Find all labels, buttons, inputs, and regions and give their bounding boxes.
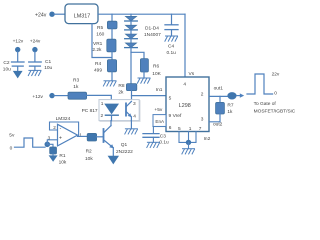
svg-text:R2: R2 (86, 148, 92, 154)
svg-text:1: 1 (101, 101, 104, 107)
svg-text:5v: 5v (9, 133, 15, 139)
svg-text:+24v: +24v (30, 39, 41, 45)
wire node to L298 In1 (132, 95, 167, 97)
capacitor C4 (165, 14, 178, 56)
regulator U2 LM317 (65, 4, 98, 24)
wire node to R1 (47, 144, 53, 147)
svg-text:R1: R1 (59, 153, 65, 159)
svg-text:160: 160 (96, 31, 104, 37)
wire diode string to R6 branch (131, 48, 144, 59)
output terminal oval (227, 92, 236, 99)
svg-text:2: 2 (53, 125, 56, 130)
svg-text:10K: 10K (152, 71, 161, 77)
svg-text:2: 2 (201, 92, 204, 98)
svg-text:To Gate of: To Gate of (254, 101, 277, 107)
svg-text:2N2222: 2N2222 (116, 149, 133, 155)
svg-text:C4: C4 (168, 44, 174, 50)
svg-text:D1-D4: D1-D4 (145, 26, 159, 32)
svg-text:2k: 2k (118, 90, 124, 96)
node dot C1 (32, 47, 37, 52)
node +24v junction dot (49, 12, 54, 17)
wire D3-D4 (130, 39, 132, 43)
svg-text:R7: R7 (227, 103, 233, 109)
svg-text:C3: C3 (160, 133, 166, 139)
resistor R4 (94, 60, 117, 74)
ground below R6 (137, 78, 150, 83)
resistor R6 (140, 59, 161, 78)
node dot C2 (15, 47, 20, 52)
svg-text:+5v: +5v (154, 107, 162, 113)
optocoupler U3 PC817 box (82, 100, 140, 122)
svg-text:9 Vref: 9 Vref (169, 113, 183, 119)
svg-text:4: 4 (183, 82, 186, 88)
arrow ground below R1 (49, 154, 58, 162)
svg-text:R6: R6 (153, 64, 159, 70)
wire +12v to R3 (54, 95, 68, 97)
svg-text:Vs: Vs (189, 71, 195, 77)
node dot ground bus (186, 140, 191, 145)
ground below C1 (28, 70, 41, 75)
ground below C4 (165, 36, 178, 41)
svg-text:In1: In1 (156, 87, 163, 93)
svg-text:+12v: +12v (32, 94, 43, 100)
svg-text:VR1: VR1 (93, 41, 103, 47)
ground below R4 (103, 81, 116, 86)
capacitor C2 (3, 52, 24, 73)
resistor R3 (68, 78, 87, 100)
svg-text:10k: 10k (85, 156, 93, 162)
output arrow (237, 93, 245, 97)
diode D4 (125, 43, 138, 48)
svg-text:499: 499 (94, 67, 102, 73)
ground below C3 (147, 142, 160, 147)
svg-text:10u: 10u (3, 67, 11, 73)
svg-text:5: 5 (169, 96, 172, 102)
wire L298 bottom pins to ground bus (179, 132, 196, 143)
wire node to opamp plus input (47, 140, 57, 145)
svg-text:L298: L298 (179, 103, 191, 109)
ground below L298 (182, 149, 195, 154)
capacitor C1 (29, 52, 53, 72)
svg-text:22v: 22v (272, 72, 280, 78)
svg-text:+12v: +12v (13, 39, 24, 45)
wire rail to R5 (111, 14, 113, 21)
svg-text:MOSFET/IGBT/SiC: MOSFET/IGBT/SiC (254, 108, 296, 114)
transistor Q1 2N2222 (104, 121, 114, 156)
wire R2 to Q1 base (97, 136, 103, 138)
diode D1 1N4007 (125, 16, 138, 21)
EnA callout box (153, 115, 166, 127)
wire R3 to opto LED anode (87, 95, 112, 103)
wire diode node down to R8 (130, 52, 132, 83)
wire R6 to ground (143, 72, 145, 78)
svg-text:3: 3 (133, 101, 136, 107)
svg-text:EnA: EnA (155, 119, 165, 124)
svg-text:out2: out2 (213, 121, 223, 127)
label D1-D4 1N4007 (144, 26, 161, 38)
svg-text:0: 0 (10, 146, 13, 152)
wire R7 to out2 (209, 114, 220, 122)
wire R5 to VR1 (111, 29, 113, 39)
svg-text:1k: 1k (227, 109, 233, 115)
wire out1 to R7 (219, 96, 221, 102)
svg-text:+: + (59, 136, 62, 142)
wire rail to diode string (130, 14, 132, 16)
wire middle stub (188, 132, 190, 143)
wire opamp output to R2 (78, 135, 88, 137)
svg-text:Q1: Q1 (121, 142, 128, 148)
svg-text:10k: 10k (59, 160, 67, 166)
wire R4 to ground (111, 72, 113, 81)
svg-text:10u: 10u (44, 65, 52, 71)
svg-text:2.2k: 2.2k (92, 47, 102, 53)
svg-text:LM317: LM317 (74, 14, 90, 20)
svg-text:R4: R4 (95, 61, 101, 67)
op-amp U1 feedback wire (50, 122, 79, 136)
wire Vs drop (184, 14, 186, 77)
svg-text:6: 6 (169, 125, 172, 131)
output pulse waveform (247, 74, 273, 94)
svg-text:3: 3 (201, 116, 204, 122)
arrow ground below Q1 (108, 156, 119, 165)
wire +24v to LM317 input (54, 13, 65, 15)
svg-text:0: 0 (274, 90, 277, 96)
capacitor C3 (143, 127, 169, 146)
svg-text:+24v: +24v (35, 12, 47, 18)
svg-text:PC 817: PC 817 (82, 108, 98, 114)
opto phototransistor (126, 101, 132, 120)
svg-text:C2: C2 (3, 60, 9, 66)
wire VR1 to R4 junction (111, 52, 113, 60)
svg-text:C1: C1 (45, 59, 51, 65)
wire D1-D2 (130, 21, 132, 25)
resistor R8 (118, 83, 136, 96)
svg-text:1N4007: 1N4007 (144, 32, 161, 38)
svg-text:LM324: LM324 (56, 116, 71, 122)
svg-text:In2: In2 (204, 136, 211, 142)
potentiometer VR1 (92, 39, 116, 53)
ground below opto (125, 129, 138, 134)
svg-text:7: 7 (199, 126, 202, 132)
wire D2-D3 (130, 30, 132, 34)
op-amp U1 triangle (58, 124, 78, 146)
resistor R7 (216, 102, 234, 114)
svg-text:out1: out1 (214, 86, 224, 92)
svg-text:R3: R3 (73, 78, 79, 84)
wire EnA to pin6 (153, 126, 166, 128)
resistor R1 (50, 147, 67, 166)
svg-text:1: 1 (189, 126, 192, 132)
svg-text:1k: 1k (73, 84, 79, 90)
resistor R2 (85, 133, 97, 161)
arrow ground below C2 (13, 71, 23, 79)
opto LED (104, 104, 119, 121)
wire bus to ground (188, 142, 190, 148)
wire LM317 output rail to Vs corner (98, 13, 185, 15)
resistor R5 (96, 21, 117, 37)
diode D3 (125, 34, 138, 39)
wire LM317 adj pin loop (92, 24, 112, 58)
pulse waveform input (15, 138, 46, 147)
svg-text:0.1u: 0.1u (159, 140, 169, 146)
svg-text:R8: R8 (118, 83, 124, 89)
wire R8 to opto collector and In1 node (131, 91, 133, 100)
wire opto emitter to ground (130, 121, 132, 129)
svg-text:R5: R5 (97, 25, 103, 31)
node dot input (45, 142, 51, 148)
wire out1 (209, 95, 228, 97)
svg-text:0.1u: 0.1u (167, 50, 177, 56)
node dot +12v (49, 93, 54, 98)
driver U4 L298 box (166, 77, 209, 132)
svg-text:4: 4 (133, 114, 136, 120)
diode D2 (125, 25, 138, 30)
svg-text:2: 2 (101, 113, 104, 119)
